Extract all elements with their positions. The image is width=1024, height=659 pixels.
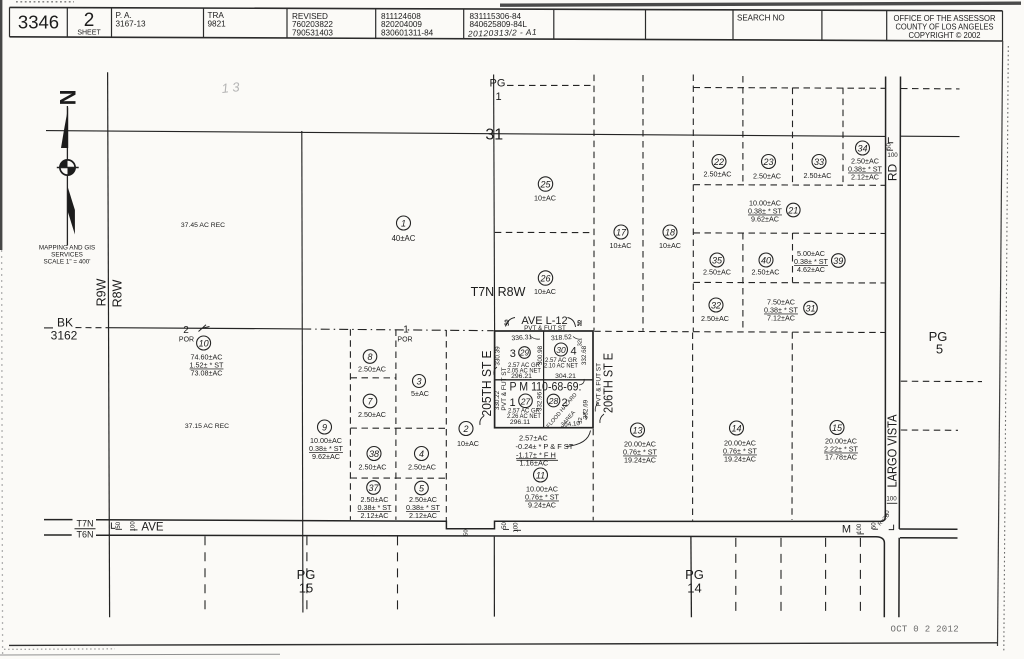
svg-text:10±AC: 10±AC <box>659 241 681 250</box>
svg-text:17.78±AC: 17.78±AC <box>825 453 857 462</box>
svg-text:296.11: 296.11 <box>510 419 531 426</box>
svg-text:17: 17 <box>616 228 627 238</box>
map bottom border line <box>9 643 998 646</box>
svg-text:336.31: 336.31 <box>511 334 532 342</box>
block inner vertical <box>543 331 545 428</box>
dashed bottom of parcels 38/4 <box>351 477 447 479</box>
bottom faint scan line <box>0 653 280 656</box>
svg-text:100: 100 <box>514 522 520 533</box>
svg-text:4.62±AC: 4.62±AC <box>797 265 825 274</box>
parcel 11 circle <box>534 468 548 482</box>
svg-text:2.50±AC: 2.50±AC <box>358 365 386 374</box>
parcel 8 circle <box>363 350 377 364</box>
parcel 28 circle <box>547 394 560 407</box>
parcel 3 circle <box>413 375 426 388</box>
svg-text:R8W: R8W <box>110 279 124 307</box>
svg-text:1.16±AC: 1.16±AC <box>520 459 549 468</box>
north arrow upper blade <box>61 107 68 148</box>
parcel 34 circle <box>856 141 870 155</box>
dashed line east of road y=381 <box>901 380 982 382</box>
parcel 32 circle <box>709 298 723 312</box>
compass horizontal tick <box>57 167 79 169</box>
parcel 18 circle <box>663 225 677 239</box>
svg-text:330.39: 330.39 <box>494 346 501 366</box>
dashed bottom of parcels 7/3 <box>351 427 447 429</box>
svg-text:32: 32 <box>578 340 584 346</box>
section line 31 east of road <box>901 135 960 137</box>
parcel 10 circle <box>197 336 211 350</box>
svg-text:300.98: 300.98 <box>537 345 544 365</box>
svg-text:50: 50 <box>886 143 892 150</box>
svg-text:2.50±AC: 2.50±AC <box>703 268 731 277</box>
svg-text:37.15 AC REC: 37.15 AC REC <box>185 423 229 430</box>
svg-text:18: 18 <box>665 228 675 238</box>
dashed parcel line x=692 (13/14) <box>692 333 694 521</box>
svg-text:9.62±AC: 9.62±AC <box>751 215 779 224</box>
dashed bottom of parcel 8 <box>351 377 397 379</box>
parcel 35 circle <box>710 253 724 267</box>
tick marks at 31/road crossing <box>888 137 893 143</box>
svg-text:33: 33 <box>814 157 824 167</box>
svg-text:LARGO VISTA: LARGO VISTA <box>884 414 899 487</box>
svg-text:5±AC: 5±AC <box>411 389 429 398</box>
corner tick at junction <box>889 525 894 530</box>
dashed line between parcels 25/26 <box>495 231 594 233</box>
north arrow lower blade <box>68 187 75 235</box>
dim underline ticks west AVE <box>116 528 123 530</box>
svg-text:39: 39 <box>833 256 843 266</box>
svg-text:2.12±AC: 2.12±AC <box>361 511 389 520</box>
svg-text:31: 31 <box>805 304 815 314</box>
205th St E section line upper <box>494 75 495 331</box>
parcel 17 circle <box>614 225 628 239</box>
leader curl left of AVE L-12 <box>506 318 516 327</box>
tick at AVE/x108 <box>111 523 115 529</box>
svg-text:9.24±AC: 9.24±AC <box>528 501 556 510</box>
AVE M east of road top line <box>899 528 957 530</box>
svg-text:304.21: 304.21 <box>555 373 576 380</box>
parcel 30 circle <box>555 343 568 356</box>
right dotted margin <box>1004 46 1009 652</box>
svg-text:2.50±AC: 2.50±AC <box>701 314 729 323</box>
leader curl under 206TH ST E <box>600 414 604 423</box>
svg-text:PG: PG <box>490 77 506 89</box>
svg-text:19.24±AC: 19.24±AC <box>724 455 756 464</box>
svg-text:37.45 AC REC: 37.45 AC REC <box>181 222 225 229</box>
svg-text:50: 50 <box>502 522 508 529</box>
parcel 15 circle <box>830 421 844 435</box>
svg-text:9: 9 <box>322 423 327 433</box>
AVE road top line with 205th notch and Largo fillet <box>44 77 886 529</box>
svg-text:2.50±AC: 2.50±AC <box>753 172 781 181</box>
svg-text:10±AC: 10±AC <box>610 241 632 250</box>
svg-text:1: 1 <box>403 325 409 336</box>
dashed north line east of road <box>901 88 960 90</box>
svg-text:PVT & FUT ST: PVT & FUT ST <box>524 325 566 332</box>
parcel 31 circle <box>804 301 818 315</box>
svg-text:T7N: T7N <box>76 519 93 529</box>
compass symbol circle <box>60 160 75 175</box>
svg-text:100: 100 <box>886 496 897 503</box>
svg-text:2: 2 <box>183 325 189 336</box>
parcel 33 circle <box>812 155 826 169</box>
svg-text:SEARCH NO: SEARCH NO <box>737 14 785 23</box>
svg-text:POR: POR <box>179 337 194 344</box>
svg-text:COPYRIGHT © 2002: COPYRIGHT © 2002 <box>909 31 981 40</box>
parcel 7 circle <box>363 394 377 408</box>
svg-text:RD: RD <box>886 164 900 182</box>
parcel 2 circle <box>459 422 473 436</box>
svg-text:296.21: 296.21 <box>511 373 532 380</box>
bottom dotted scan line <box>4 648 115 650</box>
svg-text:318.52: 318.52 <box>551 334 572 342</box>
svg-text:10: 10 <box>199 339 209 349</box>
svg-text:30: 30 <box>556 345 566 355</box>
dashed parcel line x=843 <box>842 88 844 185</box>
svg-text:2: 2 <box>462 424 468 434</box>
dashed parcel line x=743 upper <box>742 76 744 185</box>
parcel 23 circle <box>762 155 776 169</box>
scan left edge <box>0 0 2 250</box>
svg-text:22: 22 <box>713 157 724 167</box>
svg-text:OCT 0 2 2012: OCT 0 2 2012 <box>891 625 959 635</box>
dashed parcel line x=396 <box>395 330 397 520</box>
svg-text:1 3: 1 3 <box>221 79 241 96</box>
svg-text:205TH ST E: 205TH ST E <box>479 350 494 416</box>
Largo Vista Rd east line <box>899 77 901 618</box>
svg-text:BK: BK <box>57 316 73 330</box>
svg-text:14: 14 <box>731 424 741 434</box>
svg-text:SCALE 1" = 400': SCALE 1" = 400' <box>43 258 90 265</box>
svg-text:8: 8 <box>367 352 372 362</box>
svg-text:100: 100 <box>857 523 863 534</box>
dashed parcel line x=743 lower <box>742 233 744 332</box>
dashed line east of road y=430 <box>901 429 958 431</box>
parcel 40 circle <box>759 253 773 267</box>
svg-text:32: 32 <box>711 301 721 311</box>
svg-text:4: 4 <box>419 449 424 459</box>
svg-text:15: 15 <box>832 423 843 433</box>
AVE road bottom line <box>44 535 884 617</box>
svg-text:15: 15 <box>299 580 313 595</box>
svg-text:3: 3 <box>510 348 516 360</box>
parcel 14 circle <box>730 421 744 435</box>
parcel 13 circle <box>631 423 645 437</box>
svg-text:38: 38 <box>369 449 379 459</box>
leader from P&F ST note to block corner <box>566 431 591 447</box>
svg-text:SHEET: SHEET <box>77 30 101 37</box>
parcel 37 circle <box>367 481 381 495</box>
parcel 5 circle <box>415 481 429 495</box>
svg-text:2.12±AC: 2.12±AC <box>851 173 879 182</box>
dashed parcel line x=446 <box>445 330 447 521</box>
parcel 9 circle <box>318 420 332 434</box>
AVE M east of road bottom line <box>900 537 958 539</box>
svg-text:1: 1 <box>495 91 501 103</box>
svg-text:31: 31 <box>485 127 503 144</box>
dashed AVE L-12 line east of block <box>594 331 885 332</box>
svg-text:35: 35 <box>712 256 723 266</box>
svg-text:40: 40 <box>761 256 771 266</box>
section line vertical x=302 <box>302 131 303 613</box>
svg-text:32: 32 <box>505 320 511 326</box>
svg-text:AVE: AVE <box>141 522 163 534</box>
dashed bottom of 35/40/39 row <box>694 281 886 284</box>
svg-text:3: 3 <box>416 377 421 387</box>
svg-text:13: 13 <box>632 426 642 436</box>
svg-text:9.62±AC: 9.62±AC <box>312 452 340 461</box>
map right border line <box>998 41 1003 646</box>
svg-text:830601311-84: 830601311-84 <box>381 28 434 37</box>
block mid horizontal <box>495 379 593 381</box>
svg-text:MAPPING AND GIS: MAPPING AND GIS <box>39 245 95 252</box>
svg-text:40±AC: 40±AC <box>392 234 416 243</box>
svg-text:2.50±AC: 2.50±AC <box>358 410 386 419</box>
dashed parcel line x=792 lower (14/15) <box>791 332 793 520</box>
svg-text:10±AC: 10±AC <box>457 439 479 448</box>
parcel 26 circle <box>538 271 552 285</box>
svg-text:28: 28 <box>548 396 559 406</box>
svg-text:3162: 3162 <box>51 329 78 343</box>
parcel 38 circle <box>367 447 381 461</box>
svg-text:2.50±AC: 2.50±AC <box>804 171 832 180</box>
parcel 4 circle <box>415 447 429 461</box>
parcel 39 circle <box>832 254 846 268</box>
squiggle arrow near POR 2 <box>199 325 210 332</box>
svg-text:9821: 9821 <box>208 19 227 28</box>
header table frame <box>10 7 1003 10</box>
svg-text:3346: 3346 <box>18 11 59 32</box>
206th St dashed below block <box>592 429 594 521</box>
svg-text:73.08±AC: 73.08±AC <box>191 369 223 378</box>
svg-text:2.50±AC: 2.50±AC <box>359 463 387 472</box>
svg-text:10±AC: 10±AC <box>534 194 556 203</box>
svg-text:32: 32 <box>578 417 584 423</box>
parcel 25 circle <box>538 177 552 191</box>
leader curl under 205TH ST E <box>480 416 484 425</box>
dashed line PG1 to x594 <box>507 84 594 86</box>
dashed parcel line x=792 mid (40/39) <box>792 233 794 283</box>
svg-text:2: 2 <box>84 10 95 31</box>
svg-text:27: 27 <box>520 396 531 406</box>
svg-text:4: 4 <box>570 346 576 358</box>
parcel 22 circle <box>712 155 726 169</box>
svg-text:1: 1 <box>401 219 406 229</box>
parcel 1 circle <box>397 216 411 230</box>
svg-text:2.10 AC NET: 2.10 AC NET <box>544 363 578 370</box>
svg-text:32: 32 <box>578 320 584 326</box>
dashed verticals below AVE road <box>204 536 206 612</box>
svg-text:2.12±AC: 2.12±AC <box>409 511 437 520</box>
svg-text:T6N: T6N <box>76 529 93 539</box>
svg-text:21: 21 <box>787 206 798 216</box>
svg-text:20120313/2 - A1: 20120313/2 - A1 <box>467 27 537 39</box>
dashed quarter line x=594 <box>593 75 595 331</box>
dashed parcel line x=350 <box>349 329 351 520</box>
north arrow shaft lower <box>66 176 68 246</box>
svg-text:330.22: 330.22 <box>494 390 501 410</box>
svg-text:PVT & FUT ST: PVT & FUT ST <box>596 363 603 406</box>
svg-text:34: 34 <box>857 144 867 154</box>
svg-text:19.24±AC: 19.24±AC <box>624 456 656 465</box>
svg-text:7.12±AC: 7.12±AC <box>767 314 795 323</box>
svg-text:P M 110-68-69.: P M 110-68-69. <box>510 382 582 394</box>
svg-text:50: 50 <box>464 529 470 535</box>
parcel 21 circle <box>787 203 801 217</box>
dashed parcel line x=792 upper <box>792 88 794 185</box>
BK 3162 township line segments <box>44 327 53 329</box>
svg-text:37: 37 <box>368 483 379 493</box>
svg-text:T7N R8W: T7N R8W <box>471 285 526 299</box>
dashed bottom of 21 row <box>694 232 886 235</box>
svg-text:26: 26 <box>539 274 550 284</box>
P M 110-68-69 block border <box>495 331 593 428</box>
leader curl right of AVE L-12 <box>568 318 576 328</box>
solid line below road x=494 <box>493 537 495 617</box>
dashed parcel line x=643 <box>642 75 644 331</box>
section line 31 horizontal <box>46 131 885 137</box>
svg-text:5: 5 <box>936 342 943 357</box>
svg-text:10±AC: 10±AC <box>534 287 556 296</box>
svg-text:29: 29 <box>519 349 529 358</box>
svg-text:3167-13: 3167-13 <box>116 19 146 28</box>
section line vertical (R9W/R8W range line) <box>108 72 110 617</box>
dim underline ticks near M <box>858 533 865 535</box>
north arrow shaft upper <box>66 106 68 159</box>
svg-text:M: M <box>842 523 851 535</box>
svg-text:50: 50 <box>116 521 122 528</box>
svg-text:206TH ST E: 206TH ST E <box>601 353 616 413</box>
svg-text:2.50±AC: 2.50±AC <box>752 268 780 277</box>
svg-text:25: 25 <box>539 180 551 190</box>
svg-text:14: 14 <box>687 580 701 595</box>
dashed parcel line x=693 <box>692 75 694 332</box>
svg-text:2.50±AC: 2.50±AC <box>704 169 732 178</box>
dashed north line 693-885 <box>694 87 886 90</box>
solid line below road x=691 <box>690 537 693 618</box>
svg-text:332.96: 332.96 <box>537 391 544 411</box>
leader curls around block <box>530 336 540 339</box>
dim underline ticks east of notch <box>503 528 509 530</box>
svg-text:R9W: R9W <box>94 278 108 306</box>
parcel 29 circle <box>519 347 531 359</box>
dashed bottom of 22/23/33/34 row <box>694 184 886 187</box>
svg-text:790531403: 790531403 <box>292 28 333 37</box>
svg-text:23: 23 <box>762 157 773 167</box>
parcel 27 circle <box>519 394 533 408</box>
svg-text:50: 50 <box>885 510 891 517</box>
svg-text:332.68: 332.68 <box>581 345 588 365</box>
scan top dark bar <box>500 3 1021 5</box>
svg-text:11: 11 <box>536 471 545 481</box>
svg-text:N: N <box>55 90 80 106</box>
svg-text:2.50±AC: 2.50±AC <box>408 463 436 472</box>
svg-text:POR: POR <box>397 337 412 344</box>
svg-text:100: 100 <box>887 152 898 159</box>
